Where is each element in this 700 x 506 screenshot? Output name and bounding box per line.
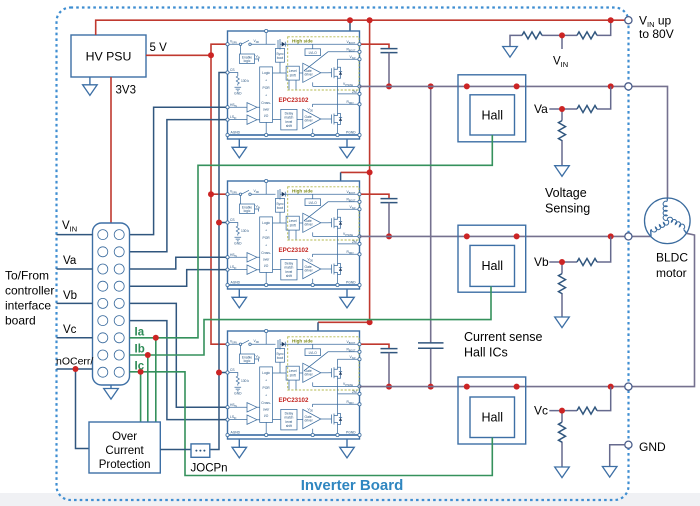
wire Vc stub	[57, 337, 93, 339]
junction 80V C	[367, 319, 373, 325]
svg-text:To/From: To/From	[5, 269, 49, 283]
junction VDRV2	[208, 191, 214, 197]
svg-text:Current: Current	[105, 445, 144, 457]
coil phase C	[667, 216, 686, 229]
wire 5V rail	[146, 44, 226, 344]
wire HS2	[130, 257, 228, 269]
svg-text:interface: interface	[5, 299, 51, 313]
wire 3V3 red to connector	[110, 77, 112, 223]
terminal VIN 80V	[625, 17, 632, 24]
svg-text:5 V: 5 V	[150, 42, 168, 54]
wire LS1	[130, 120, 228, 252]
node phase C dots	[464, 384, 470, 390]
svg-text:3V3: 3V3	[116, 85, 136, 97]
svg-text:Vc: Vc	[534, 404, 548, 418]
wire nOCerr	[57, 369, 93, 449]
capacitor C4 bus	[430, 86, 432, 386]
svg-text:motor: motor	[656, 266, 687, 280]
divider RVIN top	[510, 20, 611, 49]
svg-text:Protection: Protection	[99, 459, 151, 471]
svg-text:Va: Va	[63, 255, 77, 267]
wire HS3	[130, 303, 228, 407]
wire Vb stub	[57, 302, 93, 304]
wire phase C rail	[360, 386, 625, 388]
wire Ib green	[130, 286, 492, 422]
svg-text:HV PSU: HV PSU	[86, 50, 132, 64]
svg-text:Hall ICs: Hall ICs	[464, 346, 508, 360]
svg-text:nOCerr/: nOCerr/	[56, 356, 93, 368]
svg-text:Hall: Hall	[482, 411, 504, 425]
svg-text:GND: GND	[639, 440, 666, 454]
svg-text:Sensing: Sensing	[545, 202, 590, 216]
svg-text:BLDC: BLDC	[656, 251, 688, 265]
svg-text:Vb: Vb	[534, 255, 549, 269]
wire 80V top rail	[96, 20, 625, 35]
IC U1 EPC23102 bridge A	[226, 29, 361, 158]
junction 5V	[208, 52, 214, 58]
svg-text:board: board	[5, 314, 36, 328]
wire Va stub	[57, 268, 93, 270]
wire 80V vertical	[369, 20, 371, 322]
wire LS2	[130, 270, 228, 287]
wire Ic green	[130, 372, 493, 476]
junction CS2	[216, 220, 222, 226]
svg-text:Over: Over	[112, 431, 137, 443]
terminal phase C	[625, 383, 632, 390]
terminal phase B	[625, 233, 632, 240]
junction CS3	[216, 370, 222, 376]
connector J1	[93, 223, 130, 385]
junction Ic	[138, 369, 144, 375]
svg-text:Ic: Ic	[135, 361, 145, 373]
motor M1 BLDC	[645, 198, 691, 244]
coil phase A	[663, 201, 667, 220]
ground under HV PSU	[89, 77, 91, 85]
Hall sensor 2	[458, 225, 526, 292]
svg-text:Va: Va	[534, 102, 548, 116]
wire CS net	[210, 73, 228, 450]
wire 80V drop to bridge A	[349, 20, 351, 31]
svg-text:Hall: Hall	[482, 109, 504, 123]
inverter board dashed border	[57, 8, 629, 501]
wire HS1	[130, 107, 228, 234]
ground under connector	[110, 385, 112, 389]
svg-text:Ia: Ia	[135, 327, 145, 339]
wire Ia green	[130, 135, 493, 422]
svg-text:Vb: Vb	[63, 290, 77, 302]
svg-text:Ib: Ib	[135, 344, 145, 356]
jumper JOCPn	[191, 444, 210, 457]
wire 80V entry bridge B	[341, 171, 370, 173]
junction top rail 80V	[367, 17, 373, 23]
IC U2 EPC23102 bridge B	[226, 179, 361, 308]
junction nOCerr	[73, 366, 79, 372]
svg-text:Hall: Hall	[482, 259, 504, 273]
svg-text:Inverter Board: Inverter Board	[301, 477, 404, 494]
Hall sensor 1	[458, 75, 526, 142]
node phase A dots	[464, 83, 470, 89]
junction Ib	[145, 352, 151, 358]
junction Ia	[153, 335, 159, 341]
Hall sensor 3	[458, 377, 526, 444]
Over Current Protection box	[89, 422, 160, 473]
capacitor C3 bootstrap C	[361, 344, 389, 348]
wire phase A rail	[360, 85, 625, 87]
connector pins	[98, 230, 124, 378]
wire VIN stub	[57, 234, 93, 236]
terminal phase A	[625, 83, 632, 90]
wire phase B rail	[360, 235, 625, 237]
wire OCP to JOCPn	[160, 449, 191, 451]
svg-text:controller: controller	[5, 284, 54, 298]
coil phase B	[651, 220, 670, 233]
wire 80V entry bridge C	[318, 321, 370, 323]
svg-text:JOCPn: JOCPn	[191, 463, 228, 475]
terminal GND	[625, 441, 632, 448]
wire LS3	[130, 321, 228, 420]
svg-text:to 80V: to 80V	[639, 27, 674, 41]
junction 80V B	[367, 169, 373, 175]
node phase B dots	[464, 233, 470, 239]
IC U3 EPC23102 bridge C	[226, 329, 361, 458]
junction top rail A	[347, 17, 353, 23]
svg-text:Voltage: Voltage	[545, 186, 587, 200]
capacitor C1 bootstrap A	[361, 44, 389, 48]
capacitor C2 bootstrap B	[361, 194, 389, 198]
svg-text:Vc: Vc	[63, 324, 77, 336]
svg-text:Current sense: Current sense	[464, 330, 543, 344]
HV PSU box	[71, 35, 146, 77]
